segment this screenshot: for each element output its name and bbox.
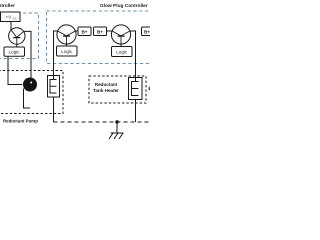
wire Q3 to HE2 — [130, 31, 136, 78]
supply box B+ (2) — [94, 27, 107, 36]
svg-text:Logic: Logic — [61, 49, 73, 54]
dashed box: pump controller (left, cut off) — [0, 13, 39, 59]
wire HE1 to ground rail — [53, 97, 55, 122]
wire HE2 to ground rail — [135, 100, 137, 123]
logic box U3 — [112, 47, 133, 57]
wire Q1 base to logic — [16, 44, 18, 47]
supply box B+ (1) — [78, 27, 91, 36]
dashed box: glow plug controller — [47, 11, 159, 64]
svg-text:B+: B+ — [144, 29, 150, 34]
junction node — [115, 120, 118, 123]
dashed box: reductant tank heater (right group) — [89, 76, 146, 103]
wire Q2 to HE1 — [54, 31, 58, 76]
svg-text:B+: B+ — [81, 29, 87, 34]
dashed box: reductant pump unit (left group, cut off) — [0, 71, 63, 114]
wire B+ to Q3 — [107, 30, 113, 32]
wire Q2 base to logic — [66, 44, 68, 46]
heater element HE1 (in pump unit) — [48, 76, 60, 98]
svg-text:Glow Plug Controller: Glow Plug Controller — [100, 3, 148, 9]
transistor Q3 (glow controller, tank heater driver) — [111, 25, 130, 44]
svg-text:+V: +V — [6, 15, 13, 20]
svg-text:Reductant Pump: Reductant Pump — [3, 118, 38, 123]
ground symbol — [109, 122, 124, 139]
logic box U2 — [57, 46, 78, 56]
svg-text:Logic: Logic — [9, 50, 21, 55]
heater element HE2 (reductant tank heater) — [129, 78, 143, 100]
chassis rail (dashed ground line) — [54, 121, 151, 123]
svg-text:Logic: Logic — [116, 50, 128, 55]
svg-text:Controller: Controller — [0, 3, 15, 9]
wire Vcc to transistor Q1 — [10, 22, 12, 31]
transistor Q1 (pump driver) — [9, 28, 25, 44]
wire logic to pump (sense) — [8, 56, 22, 84]
supply box +Vcc — [1, 12, 21, 22]
wire pump return stub — [24, 89, 31, 109]
svg-text:Reductant: Reductant — [95, 82, 118, 87]
svg-text:Tank Heater: Tank Heater — [93, 88, 119, 93]
logic box U1 — [4, 47, 25, 56]
supply box B+ (3, cut off at right edge) — [142, 27, 155, 36]
reductant pump motor M1 — [23, 78, 37, 92]
wire Q1 collector to pump — [23, 31, 31, 77]
svg-text:B+: B+ — [97, 29, 103, 34]
wire Q2 to B+ — [75, 30, 78, 32]
transistor Q2 (glow controller, heater driver) — [57, 25, 76, 44]
wire Q3 base to logic — [120, 44, 122, 46]
cut-off label fragment at right edge — [149, 87, 150, 90]
